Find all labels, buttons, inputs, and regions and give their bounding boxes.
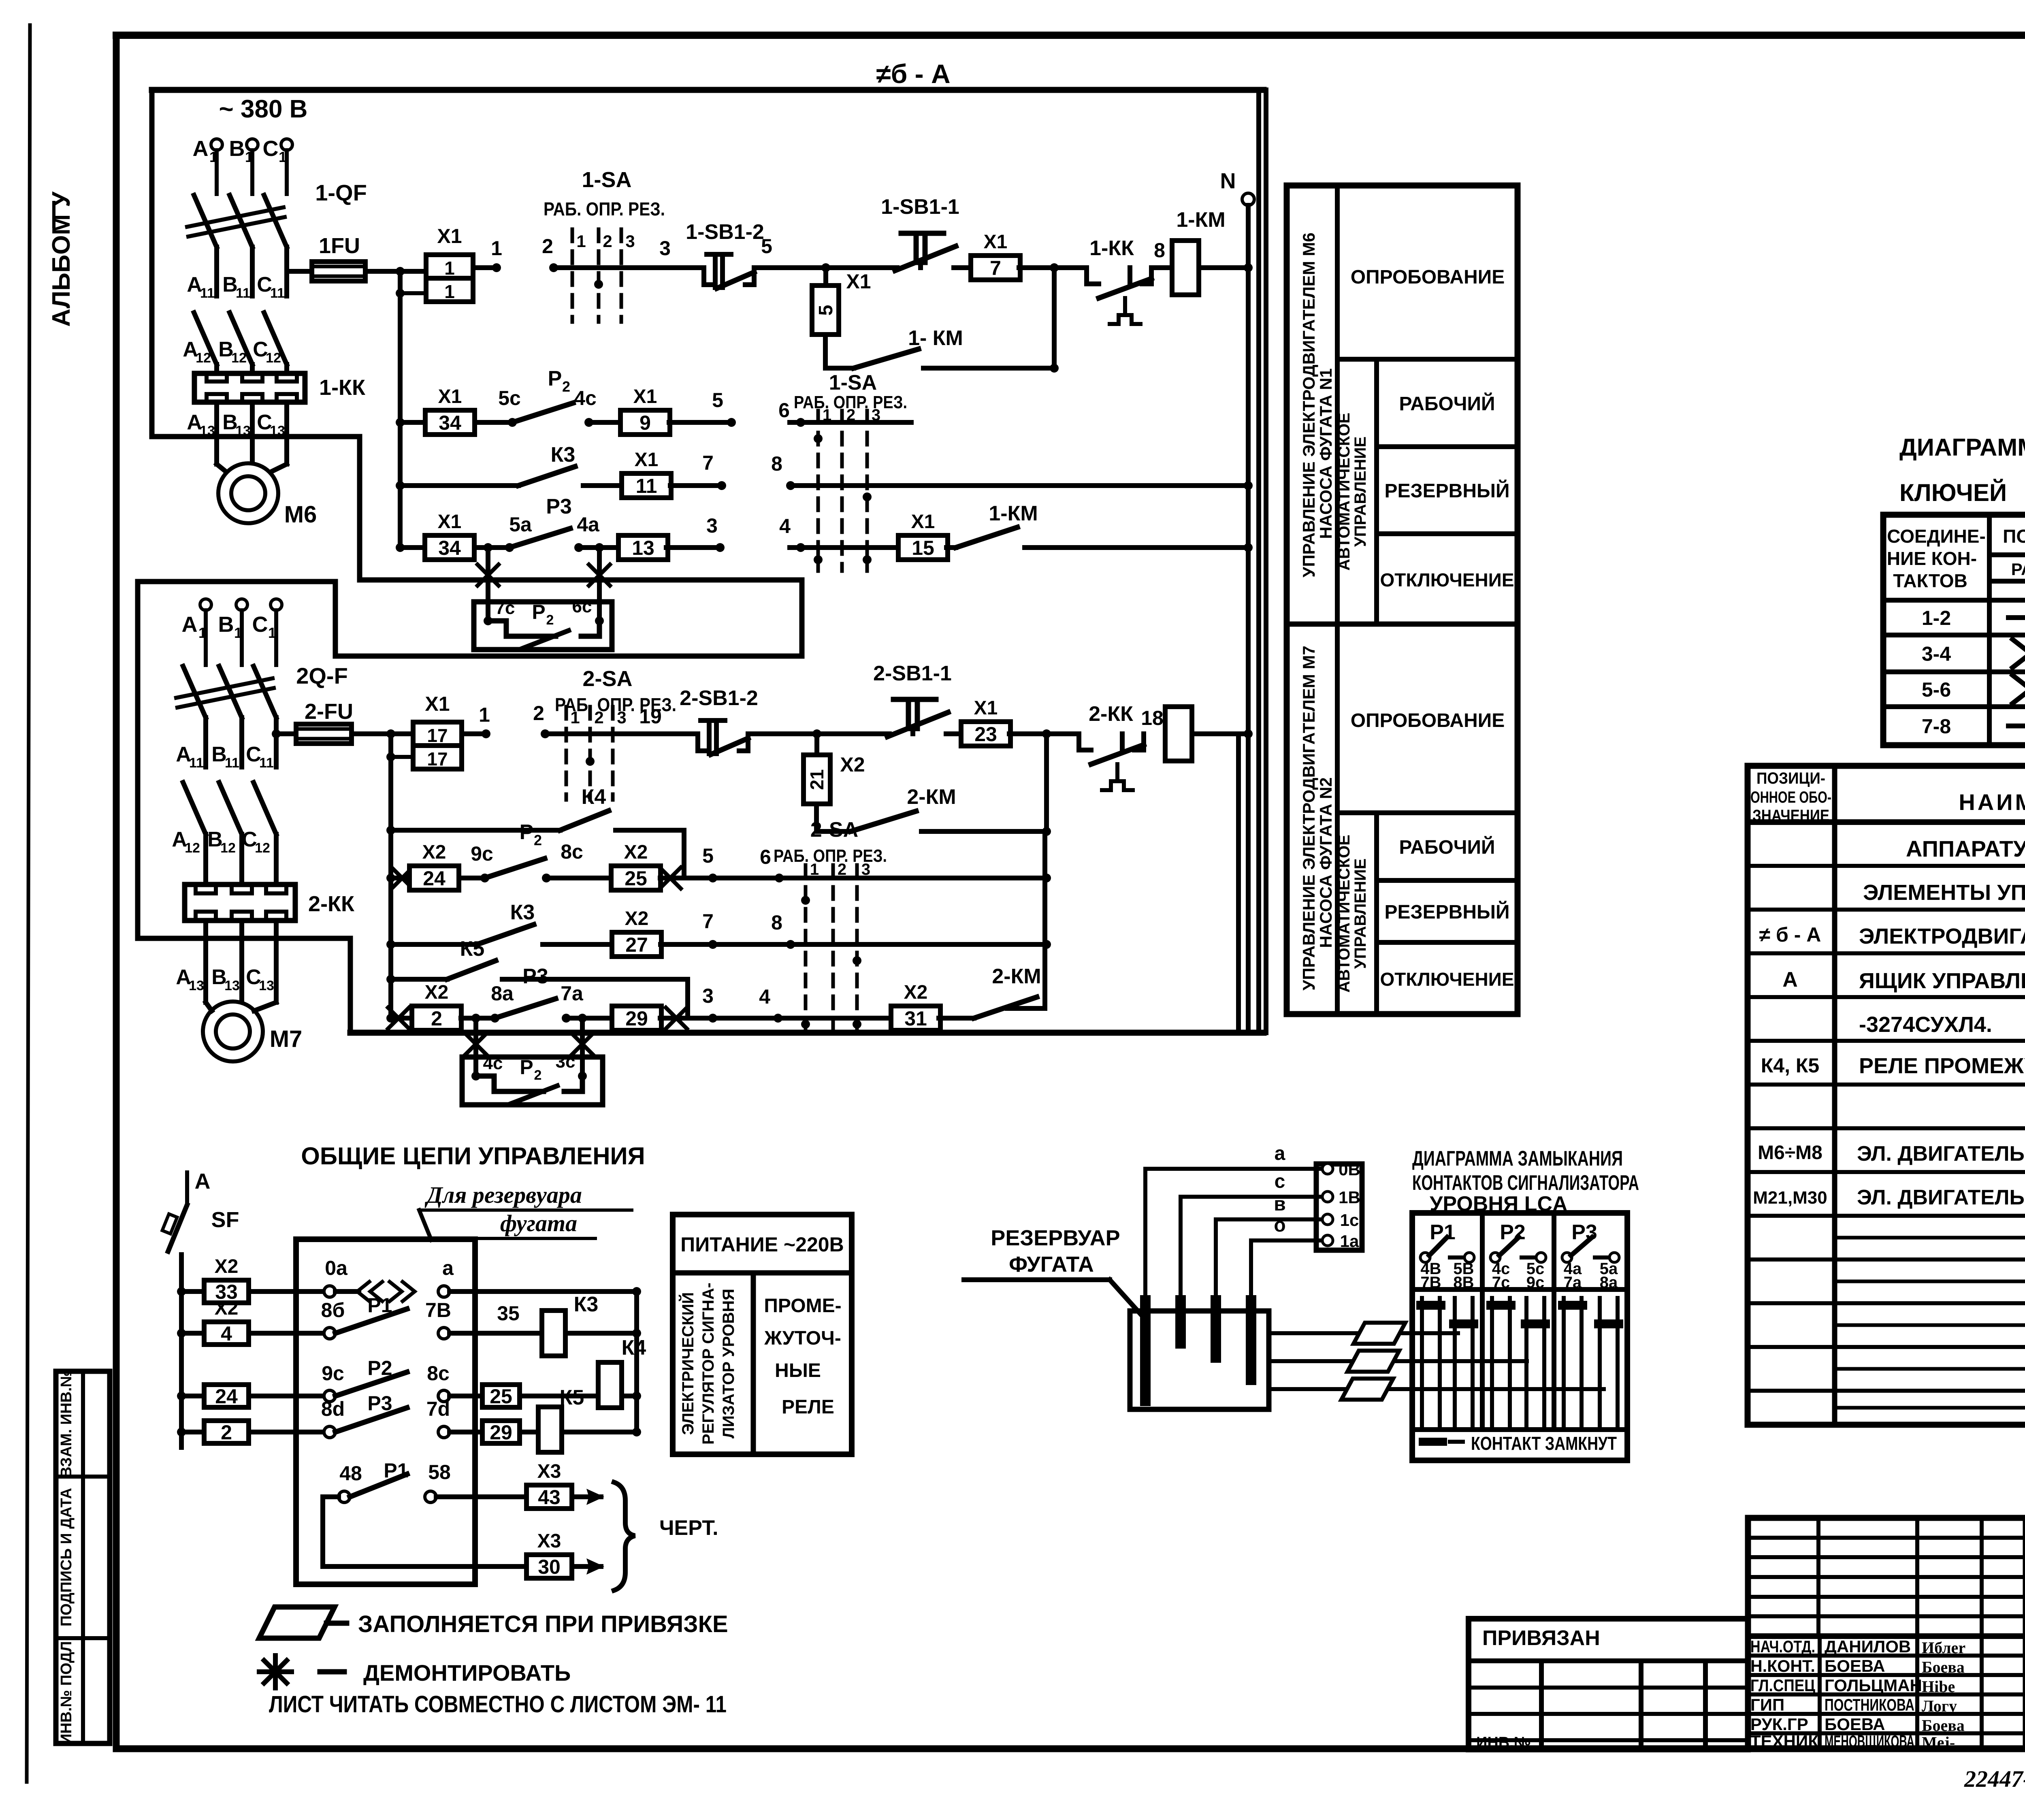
svg-text:43: 43 — [538, 1486, 561, 1509]
svg-text:17: 17 — [427, 748, 448, 769]
svg-text:1: 1 — [491, 237, 502, 260]
svg-text:РЕЗЕРВУАР: РЕЗЕРВУАР — [991, 1226, 1120, 1250]
svg-text:1-2: 1-2 — [1922, 607, 1951, 629]
svg-text:АЛЬБОМ У: АЛЬБОМ У — [47, 191, 75, 327]
svg-text:Х2: Х2 — [422, 842, 446, 863]
svg-text:13: 13 — [200, 423, 215, 439]
svg-text:8: 8 — [1154, 239, 1165, 262]
svg-text:18: 18 — [1141, 707, 1164, 729]
svg-text:3: 3 — [659, 237, 671, 260]
svg-text:КОНТАКТОВ СИГНАЛИЗАТОРА: КОНТАКТОВ СИГНАЛИЗАТОРА — [1412, 1171, 1639, 1195]
svg-text:21: 21 — [806, 769, 827, 790]
svg-text:Р: Р — [548, 367, 562, 390]
svg-text:Логу: Логу — [1922, 1697, 1957, 1715]
svg-text:1: 1 — [576, 232, 586, 251]
svg-text:7: 7 — [702, 452, 714, 474]
svg-text:11: 11 — [189, 755, 204, 771]
svg-text:2Q-F: 2Q-F — [296, 663, 348, 688]
svg-text:АВТОМАТИЧЕСКОЕ: АВТОМАТИЧЕСКОЕ — [1335, 413, 1353, 571]
svg-text:ЛИСТ ЧИТАТЬ СОВМЕСТНО С: ЛИСТ ЧИТАТЬ СОВМЕСТНО С ЛИСТОМ ЭМ- 11 — [269, 1691, 727, 1718]
svg-text:ГИП: ГИП — [1750, 1695, 1784, 1714]
svg-text:ЗНАЧЕНИЕ: ЗНАЧЕНИЕ — [1752, 807, 1829, 825]
svg-text:ВЗАМ. ИНВ.№: ВЗАМ. ИНВ.№ — [58, 1370, 75, 1478]
svg-text:ЭЛ. ДВИГАТЕЛЬ 4А132S4В 7,5: ЭЛ. ДВИГАТЕЛЬ 4А132S4В 7,5 КВТ — [1857, 1142, 2025, 1166]
svg-text:5: 5 — [815, 305, 837, 316]
svg-text:3: 3 — [861, 861, 870, 878]
svg-text:31: 31 — [904, 1007, 927, 1030]
svg-text:фугата: фугата — [500, 1210, 577, 1236]
svg-text:6: 6 — [778, 399, 790, 422]
svg-text:УПРАВЛЕНИЕ: УПРАВЛЕНИЕ — [1351, 859, 1369, 969]
svg-text:58: 58 — [428, 1461, 451, 1483]
svg-text:22447-05 13: 22447-05 13 — [1964, 1766, 2025, 1792]
svg-text:Р1: Р1 — [367, 1294, 392, 1317]
svg-text:К3: К3 — [551, 443, 576, 467]
svg-text:13: 13 — [259, 978, 274, 993]
svg-text:ДЕМОНТИРОВАТЬ: ДЕМОНТИРОВАТЬ — [363, 1660, 571, 1686]
svg-text:≠ б - А: ≠ б - А — [1759, 923, 1821, 946]
svg-text:4: 4 — [221, 1322, 232, 1345]
svg-text:11: 11 — [270, 286, 285, 301]
svg-text:SF: SF — [211, 1208, 239, 1232]
svg-text:7а: 7а — [561, 982, 584, 1005]
svg-text:Х2: Х2 — [904, 982, 928, 1003]
svg-text:2: 2 — [542, 235, 553, 258]
svg-text:2: 2 — [594, 708, 603, 727]
svg-text:9с: 9с — [471, 842, 493, 865]
svg-text:1-КК: 1-КК — [319, 375, 366, 400]
svg-text:РЕЗЕРВНЫЙ: РЕЗЕРВНЫЙ — [1385, 901, 1510, 923]
svg-text:МЕНОВЩИКОВА: МЕНОВЩИКОВА — [1825, 1732, 1914, 1751]
svg-text:Х1: Х1 — [974, 697, 998, 719]
svg-text:ПРОМЕ-: ПРОМЕ- — [764, 1295, 841, 1317]
svg-text:7: 7 — [990, 257, 1001, 279]
svg-text:ОННОЕ ОБО-: ОННОЕ ОБО- — [1750, 789, 1831, 806]
svg-text:2-КК: 2-КК — [1089, 702, 1133, 726]
svg-text:24: 24 — [423, 867, 446, 890]
svg-text:11: 11 — [236, 286, 250, 301]
svg-text:-3274СУХЛ4.: -3274СУХЛ4. — [1859, 1012, 1992, 1037]
svg-text:13: 13 — [632, 537, 654, 559]
svg-text:9: 9 — [639, 411, 651, 434]
svg-text:РАБОЧИЙ: РАБОЧИЙ — [1399, 392, 1495, 415]
svg-text:ИНВ.№ ПОДЛ.: ИНВ.№ ПОДЛ. — [58, 1637, 75, 1745]
svg-text:1: 1 — [810, 861, 819, 878]
svg-text:1: 1 — [209, 149, 217, 165]
svg-text:7d: 7d — [426, 1398, 450, 1420]
svg-text:1: 1 — [268, 624, 276, 641]
svg-text:ФУГАТА: ФУГАТА — [1009, 1252, 1094, 1277]
svg-text:А: А — [182, 612, 198, 637]
svg-text:11: 11 — [200, 286, 215, 301]
svg-text:2-SB1-2: 2-SB1-2 — [680, 686, 758, 710]
svg-text:3: 3 — [625, 232, 635, 251]
svg-text:0В: 0В — [1339, 1160, 1360, 1179]
svg-text:1: 1 — [245, 149, 253, 165]
svg-text:4с: 4с — [574, 387, 597, 409]
svg-text:8В: 8В — [1453, 1274, 1474, 1291]
svg-text:В: В — [229, 136, 245, 161]
svg-text:РУК.ГР: РУК.ГР — [1750, 1715, 1808, 1734]
svg-text:4с: 4с — [483, 1053, 503, 1073]
svg-text:К4, К5: К4, К5 — [1761, 1054, 1819, 1077]
svg-text:1: 1 — [570, 708, 580, 727]
svg-text:УПРАВЛЕНИЕ: УПРАВЛЕНИЕ — [1351, 437, 1369, 547]
svg-text:2: 2 — [431, 1007, 442, 1030]
svg-text:Х1: Х1 — [911, 511, 935, 533]
svg-text:Р3: Р3 — [1571, 1221, 1597, 1244]
svg-text:3: 3 — [702, 985, 714, 1007]
svg-text:3с: 3с — [556, 1052, 576, 1072]
svg-text:1: 1 — [444, 281, 455, 302]
svg-text:Боева: Боева — [1922, 1716, 1965, 1735]
svg-text:Иблer: Иблer — [1922, 1639, 1965, 1657]
svg-text:ЭЛЕМЕНТЫ УПРАВЛЕНИЯ.: ЭЛЕМЕНТЫ УПРАВЛЕНИЯ. — [1863, 880, 2025, 905]
svg-text:УПРАВЛЕНИЕ ЭЛЕКТРОДВИГАТЕЛЕМ: УПРАВЛЕНИЕ ЭЛЕКТРОДВИГАТЕЛЕМ М7 — [1299, 646, 1318, 991]
svg-text:ГОЛЬЦМАН: ГОЛЬЦМАН — [1825, 1676, 1922, 1695]
svg-text:11: 11 — [636, 475, 657, 497]
svg-text:1-КМ: 1-КМ — [989, 502, 1038, 525]
svg-text:48: 48 — [339, 1462, 362, 1485]
svg-text:А: А — [1782, 968, 1798, 991]
svg-text:12: 12 — [266, 350, 281, 366]
svg-text:ЭЛ. ДВИГАТЕЛЬ 4АХ80В4; 1,5: ЭЛ. ДВИГАТЕЛЬ 4АХ80В4; 1,5 КВТ — [1857, 1186, 2025, 1209]
svg-text:8а: 8а — [1600, 1274, 1618, 1291]
svg-text:27: 27 — [625, 933, 648, 956]
svg-text:2: 2 — [534, 832, 542, 848]
svg-text:29: 29 — [625, 1007, 648, 1030]
svg-text:Х2: Х2 — [840, 753, 865, 776]
svg-text:1-QF: 1-QF — [315, 180, 367, 205]
svg-text:8d: 8d — [321, 1398, 345, 1420]
svg-text:АВТОМАТИЧЕСКОЕ: АВТОМАТИЧЕСКОЕ — [1335, 835, 1353, 993]
svg-text:8б: 8б — [321, 1299, 345, 1321]
svg-text:НЫЕ: НЫЕ — [775, 1360, 821, 1381]
svg-text:Р: Р — [520, 820, 534, 844]
svg-text:К5: К5 — [560, 1386, 584, 1409]
svg-text:ЧЕРТ.: ЧЕРТ. — [659, 1516, 718, 1540]
svg-text:7: 7 — [702, 910, 714, 933]
svg-text:30: 30 — [538, 1556, 561, 1578]
svg-text:Х2: Х2 — [624, 842, 648, 863]
svg-text:15: 15 — [912, 537, 934, 559]
svg-text:2-КК: 2-КК — [308, 892, 355, 916]
svg-text:Р3: Р3 — [367, 1392, 392, 1415]
svg-text:БОЕВА: БОЕВА — [1825, 1715, 1885, 1734]
svg-text:РАБОЧИЙ: РАБОЧИЙ — [1399, 836, 1495, 858]
svg-text:12: 12 — [220, 840, 236, 856]
svg-text:8: 8 — [771, 911, 782, 934]
svg-text:ЛИЗАТОР УРОВНЯ: ЛИЗАТОР УРОВНЯ — [720, 1289, 738, 1439]
svg-text:ОТКЛЮЧЕНИЕ: ОТКЛЮЧЕНИЕ — [1380, 969, 1514, 990]
svg-text:КОНТАКТ ЗАМКНУТ: КОНТАКТ ЗАМКНУТ — [1471, 1433, 1617, 1454]
svg-text:ОПРОБОВАНИЕ: ОПРОБОВАНИЕ — [1351, 710, 1505, 731]
svg-text:1: 1 — [279, 149, 287, 165]
svg-text:Для резервуара: Для резервуара — [424, 1182, 582, 1208]
svg-text:1: 1 — [823, 406, 831, 424]
svg-text:11: 11 — [259, 755, 274, 771]
svg-text:19: 19 — [639, 705, 662, 728]
svg-text:РЕГУЛЯТОР СИГНА-: РЕГУЛЯТОР СИГНА- — [699, 1283, 717, 1445]
svg-text:С: С — [263, 136, 279, 161]
svg-text:~ 380 В: ~ 380 В — [219, 95, 308, 123]
svg-text:в: в — [1274, 1193, 1286, 1215]
svg-text:12: 12 — [231, 350, 247, 366]
svg-text:ОПРОБОВАНИЕ: ОПРОБОВАНИЕ — [1351, 266, 1505, 288]
svg-text:1-SA: 1-SA — [829, 371, 877, 394]
svg-text:Р: Р — [520, 1056, 533, 1078]
svg-text:24: 24 — [215, 1385, 238, 1408]
svg-text:Х3: Х3 — [537, 1461, 561, 1482]
svg-text:7-8: 7-8 — [1922, 715, 1951, 738]
svg-text:1-SB1-2: 1-SB1-2 — [686, 220, 764, 244]
svg-text:13: 13 — [189, 978, 204, 993]
svg-text:Нibe: Нibe — [1922, 1677, 1955, 1696]
svg-text:Х1: Х1 — [846, 270, 871, 293]
svg-text:34: 34 — [438, 537, 461, 559]
svg-text:РАБ.: РАБ. — [2011, 560, 2025, 579]
svg-text:Х3: Х3 — [537, 1530, 561, 1552]
svg-text:1: 1 — [234, 624, 242, 641]
svg-text:с: с — [1275, 1171, 1285, 1192]
svg-text:ПИТАНИЕ ~220В: ПИТАНИЕ ~220В — [680, 1233, 844, 1256]
svg-text:5-6: 5-6 — [1922, 678, 1951, 701]
svg-text:1: 1 — [198, 624, 207, 641]
svg-text:0а: 0а — [325, 1257, 348, 1279]
svg-text:Н.КОНТ.: Н.КОНТ. — [1750, 1656, 1815, 1675]
svg-text:ИНВ.№: ИНВ.№ — [1476, 1734, 1531, 1751]
svg-text:9с: 9с — [322, 1362, 344, 1385]
svg-text:7В: 7В — [1420, 1274, 1441, 1291]
svg-text:Х1: Х1 — [437, 225, 462, 247]
svg-text:Х1: Х1 — [438, 511, 462, 533]
svg-text:Х1: Х1 — [635, 449, 659, 471]
svg-text:11: 11 — [225, 755, 239, 771]
svg-text:23: 23 — [974, 723, 997, 746]
svg-text:В: В — [218, 612, 234, 637]
svg-text:К3: К3 — [574, 1293, 599, 1316]
svg-text:Х2: Х2 — [215, 1256, 239, 1277]
svg-text:С: С — [252, 612, 268, 637]
svg-text:29: 29 — [490, 1421, 512, 1444]
svg-text:2: 2 — [562, 378, 570, 395]
svg-text:4: 4 — [779, 515, 791, 537]
svg-text:5: 5 — [761, 235, 772, 258]
svg-text:2: 2 — [846, 406, 855, 424]
svg-text:6: 6 — [760, 846, 771, 868]
svg-text:ПОДПИСЬ И ДАТА: ПОДПИСЬ И ДАТА — [58, 1488, 75, 1626]
svg-text:ДАНИЛОВ: ДАНИЛОВ — [1825, 1637, 1911, 1656]
svg-text:25: 25 — [490, 1385, 512, 1408]
svg-text:Мej-: Мej- — [1922, 1733, 1955, 1752]
svg-text:25: 25 — [625, 867, 647, 890]
svg-text:М21,М30: М21,М30 — [1753, 1188, 1827, 1208]
svg-text:А: А — [195, 1169, 211, 1193]
svg-text:6с: 6с — [572, 597, 592, 616]
svg-text:БОЕВА: БОЕВА — [1825, 1656, 1885, 1675]
svg-text:1с: 1с — [1340, 1210, 1359, 1230]
svg-text:ОТКЛЮЧЕНИЕ: ОТКЛЮЧЕНИЕ — [1380, 569, 1514, 590]
svg-text:ПОСТНИКОВА: ПОСТНИКОВА — [1825, 1695, 1914, 1714]
svg-text:2: 2 — [546, 612, 554, 628]
svg-text:3: 3 — [617, 708, 626, 727]
svg-text:М6÷М8: М6÷М8 — [1758, 1142, 1823, 1164]
svg-text:7В: 7В — [425, 1299, 451, 1321]
svg-text:ЖУТОЧ-: ЖУТОЧ- — [764, 1328, 841, 1349]
svg-text:Р2: Р2 — [367, 1357, 392, 1379]
svg-text:ЯЩИК УПРАВЛЕНИЯ ЯОИ5901-: ЯЩИК УПРАВЛЕНИЯ ЯОИ5901- — [1859, 969, 2025, 993]
svg-text:НАСОСА ФУГАТА N1: НАСОСА ФУГАТА N1 — [1316, 368, 1335, 539]
svg-text:Х2: Х2 — [215, 1298, 239, 1319]
svg-text:ОБЩИЕ ЦЕПИ УПРАВЛЕНИЯ: ОБЩИЕ ЦЕПИ УПРАВЛЕНИЯ — [301, 1142, 645, 1170]
svg-text:ДИАГРАММА ЗАМЫКАНИЯ: ДИАГРАММА ЗАМЫКАНИЯ — [1412, 1147, 1623, 1170]
svg-text:ДИАГРАММА ЗАМЫКАНИЯ КОНТАКТО: ДИАГРАММА ЗАМЫКАНИЯ КОНТАКТОВ — [1899, 434, 2025, 461]
svg-text:1В: 1В — [1339, 1188, 1360, 1207]
svg-text:2: 2 — [221, 1421, 232, 1444]
svg-text:2: 2 — [603, 232, 612, 251]
svg-text:1: 1 — [479, 703, 490, 726]
svg-text:8а: 8а — [491, 982, 514, 1005]
svg-text:ЗАПОЛНЯЕТСЯ ПРИ ПРИВЯЗКЕ: ЗАПОЛНЯЕТСЯ ПРИ ПРИВЯЗКЕ — [358, 1611, 728, 1637]
svg-text:1-SA: 1-SA — [582, 168, 631, 192]
svg-text:Х1: Х1 — [633, 386, 657, 407]
svg-text:17: 17 — [427, 725, 448, 746]
svg-text:НИЕ КОН-: НИЕ КОН- — [1887, 548, 1977, 569]
svg-text:ТЕХНИК: ТЕХНИК — [1750, 1732, 1818, 1751]
svg-text:2-SA: 2-SA — [582, 667, 632, 691]
svg-text:1- КМ: 1- КМ — [908, 326, 963, 350]
svg-text:РАБ. ОПР. РЕЗ.: РАБ. ОПР. РЕЗ. — [544, 198, 665, 220]
svg-text:2-SA: 2-SA — [810, 818, 858, 842]
svg-text:НАИМЕНОВАНИЕ: НАИМЕНОВАНИЕ — [1959, 789, 2025, 815]
svg-text:2-SB1-1: 2-SB1-1 — [873, 662, 952, 685]
svg-text:ПОЛОЖЕНИЕ РУКОЯТКИ: ПОЛОЖЕНИЕ РУКОЯТКИ — [2003, 526, 2025, 547]
svg-text:35: 35 — [497, 1302, 520, 1325]
svg-text:УПРАВЛЕНИЕ ЭЛЕКТРОДВИГАТЕЛЕМ: УПРАВЛЕНИЕ ЭЛЕКТРОДВИГАТЕЛЕМ М6 — [1299, 232, 1318, 578]
svg-text:М7: М7 — [270, 1026, 303, 1052]
svg-text:К4: К4 — [622, 1336, 646, 1360]
svg-text:КЛЮЧЕЙ: КЛЮЧЕЙ — [1899, 479, 2007, 506]
svg-text:5: 5 — [712, 389, 723, 411]
svg-text:НАСОСА ФУГАТА N2: НАСОСА ФУГАТА N2 — [1316, 777, 1335, 948]
svg-text:N: N — [1220, 169, 1236, 193]
svg-text:4: 4 — [759, 985, 770, 1008]
svg-text:12: 12 — [255, 840, 270, 856]
svg-text:2-КМ: 2-КМ — [907, 785, 956, 809]
svg-text:А: А — [193, 136, 209, 161]
svg-text:Х2: Х2 — [425, 982, 449, 1003]
svg-text:К3: К3 — [510, 901, 535, 924]
svg-text:Х1: Х1 — [984, 231, 1008, 253]
svg-text:РЕЛЕ ПРОМЕЖУТОЧНОЕ ПЭ-37: РЕЛЕ ПРОМЕЖУТОЧНОЕ ПЭ-37 — [1859, 1054, 2025, 1078]
svg-text:7с: 7с — [495, 598, 515, 618]
svg-text:СОЕДИНЕ-: СОЕДИНЕ- — [1887, 526, 1986, 547]
svg-text:К5: К5 — [460, 937, 485, 961]
svg-text:М6: М6 — [284, 501, 317, 528]
svg-text:4а: 4а — [577, 513, 600, 536]
svg-text:ЭЛЕКТРИЧЕСКИЙ: ЭЛЕКТРИЧЕСКИЙ — [678, 1292, 697, 1435]
svg-text:1: 1 — [444, 258, 455, 279]
svg-text:12: 12 — [185, 840, 200, 856]
svg-text:12: 12 — [196, 350, 211, 366]
svg-text:5а: 5а — [509, 513, 532, 536]
svg-text:Х1: Х1 — [438, 386, 462, 407]
svg-text:Р1: Р1 — [384, 1459, 408, 1482]
svg-text:1а: 1а — [1340, 1232, 1359, 1251]
svg-text:Х1: Х1 — [425, 693, 450, 715]
svg-text:13: 13 — [270, 423, 285, 439]
svg-text:2: 2 — [838, 861, 846, 878]
svg-text:3: 3 — [706, 514, 718, 537]
svg-text:2: 2 — [534, 1068, 542, 1083]
svg-text:13: 13 — [235, 423, 251, 439]
svg-text:ТАКТОВ: ТАКТОВ — [1893, 570, 1967, 591]
svg-text:3: 3 — [872, 406, 880, 424]
svg-text:8с: 8с — [561, 840, 583, 863]
svg-text:34: 34 — [439, 411, 461, 434]
svg-text:8: 8 — [771, 452, 782, 475]
svg-text:АППАРАТУРА ПО МЕСТУ.: АППАРАТУРА ПО МЕСТУ. — [1906, 836, 2025, 861]
svg-text:7а: 7а — [1564, 1274, 1582, 1291]
svg-text:3-4: 3-4 — [1922, 643, 1951, 665]
svg-text:Р: Р — [532, 601, 545, 623]
svg-text:К4: К4 — [582, 785, 606, 809]
svg-text:1-КМ: 1-КМ — [1176, 208, 1225, 232]
svg-text:1-КК: 1-КК — [1089, 237, 1134, 260]
svg-text:о: о — [1274, 1215, 1285, 1236]
svg-text:ПРИВЯЗАН: ПРИВЯЗАН — [1482, 1626, 1600, 1650]
svg-text:2-FU: 2-FU — [305, 699, 353, 724]
svg-text:а: а — [442, 1257, 454, 1279]
svg-text:РЕЛЕ: РЕЛЕ — [782, 1396, 834, 1418]
svg-text:ЭЛЕКТРОДВИГАТЕЛЯМИ М.6 ; М.7: ЭЛЕКТРОДВИГАТЕЛЯМИ М.6 ; М.7. — [1859, 924, 2025, 948]
svg-text:13: 13 — [224, 978, 240, 993]
svg-text:5: 5 — [702, 844, 714, 867]
svg-text:5с: 5с — [498, 387, 521, 409]
svg-text:Боева: Боева — [1922, 1658, 1965, 1676]
svg-text:7с: 7с — [1492, 1274, 1510, 1291]
svg-text:Р3: Р3 — [546, 495, 572, 518]
svg-text:ГЛ.СПЕЦ: ГЛ.СПЕЦ — [1750, 1676, 1815, 1695]
svg-text:9с: 9с — [1526, 1274, 1545, 1291]
svg-text:2-КМ: 2-КМ — [992, 965, 1041, 988]
svg-text:РЕЗЕРВНЫЙ: РЕЗЕРВНЫЙ — [1385, 480, 1510, 502]
svg-text:≠б - А: ≠б - А — [876, 59, 950, 89]
svg-text:1FU: 1FU — [319, 234, 360, 258]
svg-text:2: 2 — [533, 702, 544, 725]
svg-text:Р3: Р3 — [522, 965, 548, 988]
svg-text:Х2: Х2 — [625, 908, 649, 929]
svg-text:а: а — [1275, 1143, 1285, 1164]
svg-text:1-SB1-1: 1-SB1-1 — [881, 195, 959, 219]
svg-text:НАЧ.ОТД.: НАЧ.ОТД. — [1750, 1637, 1815, 1656]
svg-text:ПОЗИЦИ-: ПОЗИЦИ- — [1756, 769, 1825, 787]
svg-text:8с: 8с — [427, 1362, 450, 1385]
